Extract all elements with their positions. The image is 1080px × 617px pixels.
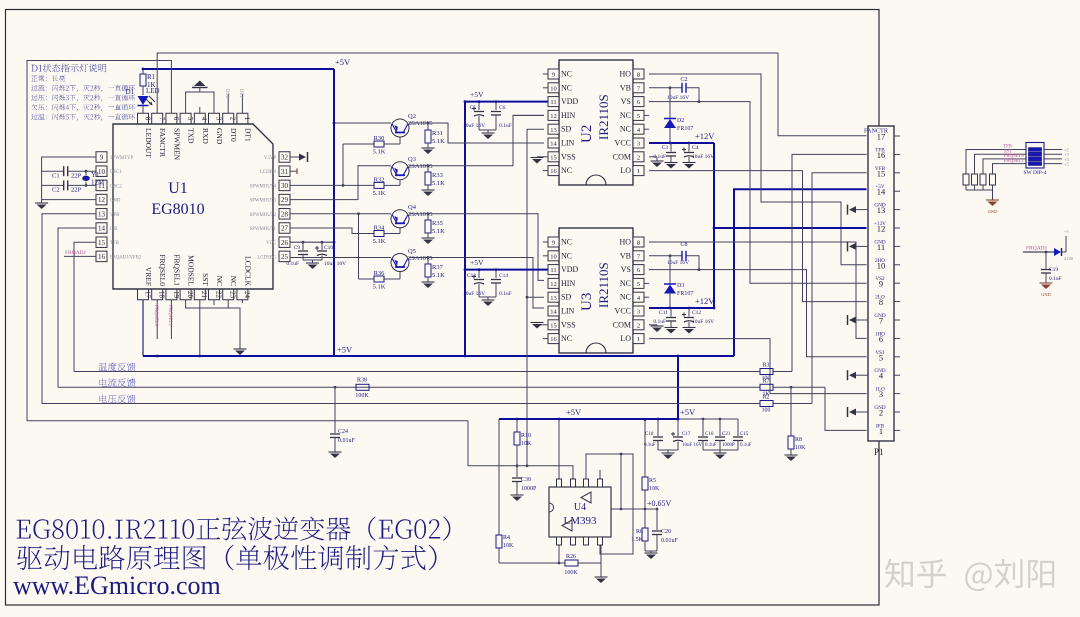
svg-text:NC: NC: [561, 251, 572, 260]
svg-text:22P: 22P: [71, 173, 82, 180]
svg-text:C21: C21: [722, 432, 731, 437]
resistor pulldown 3: [982, 172, 984, 174]
svg-text:C30: C30: [521, 477, 531, 483]
svg-text:SPWMOUT2: SPWMOUT2: [250, 213, 277, 218]
wire R26 line: [499, 562, 565, 564]
wire U4 pin1 to +5V: [558, 419, 560, 479]
wire Q4 base: [399, 228, 401, 234]
svg-text:10K: 10K: [503, 543, 514, 549]
svg-text:R6: R6: [636, 529, 643, 535]
svg-text:C10: C10: [324, 245, 333, 251]
svg-text:13: 13: [98, 210, 106, 218]
U1 right pin 31 LCDEN: [279, 166, 290, 177]
resistor R33: [427, 166, 429, 172]
wire VCC3 +12V: [649, 307, 714, 309]
U1 left pin 10 OSC1: [96, 166, 107, 177]
U4 bottom pin: [571, 537, 576, 545]
svg-text:1LO: 1LO: [875, 387, 885, 393]
ground R37: [422, 281, 435, 283]
diode D3 FR107: [669, 256, 671, 284]
note title: [32, 64, 107, 72]
capacitor C17: [677, 419, 679, 436]
svg-text:C12: C12: [692, 310, 701, 316]
svg-text:0.1uF: 0.1uF: [499, 291, 512, 297]
wire DIP gnd bus: [966, 189, 993, 191]
capacitor C16: [702, 419, 704, 436]
ground R8: [785, 454, 798, 456]
svg-text:SPWMTYP: SPWMTYP: [110, 156, 134, 161]
capacitor C10: [321, 242, 323, 250]
U1 top pin 6 SPWMEN: [166, 113, 177, 124]
svg-text:12: 12: [550, 113, 557, 120]
resistor R36: [374, 276, 384, 282]
wire IFB to P1 pin1: [825, 387, 867, 430]
U1 left pin 15 TFB: [96, 237, 107, 248]
svg-text:FR107: FR107: [677, 291, 693, 297]
wire VB2: [649, 87, 682, 89]
svg-text:29: 29: [281, 196, 289, 204]
U3 left pin 15 VSS: [548, 320, 559, 330]
+12V wire to P1 pin12: [714, 227, 867, 229]
wire VS3 to P1 pin5: [649, 270, 867, 357]
U1 right pin 28 SPWMOUT2: [279, 209, 290, 220]
svg-text:VB: VB: [620, 83, 631, 92]
IC U1 EG8010 body: [113, 124, 273, 289]
U4 bottom pin: [557, 537, 562, 545]
U3 right pin 1 LO: [633, 334, 644, 344]
U1 top pin 2 DT0: [223, 113, 234, 124]
svg-text:FRQSEL0: FRQSEL0: [153, 305, 158, 327]
diode D4: [1054, 248, 1061, 256]
U1 top pin 8 LEDOUT: [138, 113, 149, 124]
svg-text:+12V: +12V: [695, 131, 715, 141]
svg-text:FANCTR: FANCTR: [158, 128, 167, 157]
wire VFB pin13: [42, 214, 96, 404]
label dianya fankui: [99, 395, 135, 404]
svg-text:3: 3: [637, 309, 640, 316]
wire Q5 collector to LIN3: [409, 258, 544, 309]
svg-text:21: 21: [200, 291, 208, 299]
svg-text:GND: GND: [988, 209, 998, 214]
wire IFB pin14: [58, 228, 96, 387]
svg-text:+12V: +12V: [695, 296, 715, 306]
capacitor C12: [688, 308, 690, 317]
wire SD3: [527, 296, 544, 298]
transistor Q3 2SA1015: [391, 162, 409, 180]
note line 1: [31, 75, 65, 81]
P1 gnd arrow pin 4: [855, 374, 868, 376]
svg-text:R10: R10: [521, 433, 531, 439]
svg-text:R33: R33: [432, 172, 443, 179]
wire SPWMEN net: [27, 61, 171, 421]
svg-text:IR2110S: IR2110S: [596, 94, 611, 140]
svg-text:10K: 10K: [795, 445, 806, 451]
svg-text:C14: C14: [499, 273, 508, 279]
resistor R8: [790, 387, 792, 436]
U4 top pin: [598, 479, 603, 487]
DIP element 4: [1029, 162, 1042, 166]
svg-text:FRQSEL1: FRQSEL1: [172, 254, 181, 286]
net label FRQADJ pin16: [64, 255, 96, 257]
svg-text:9: 9: [100, 154, 104, 162]
svg-text:16: 16: [550, 336, 557, 343]
svg-text:R3: R3: [763, 363, 770, 369]
DIP element 1: [1029, 148, 1042, 152]
resistor R32: [374, 182, 384, 188]
svg-text:FR107: FR107: [677, 126, 693, 132]
svg-text:2HO: 2HO: [875, 258, 885, 264]
svg-text:R32: R32: [374, 177, 385, 184]
svg-text:SW DIP-4: SW DIP-4: [1024, 170, 1047, 176]
U3 right pin 4 NC: [644, 296, 649, 298]
svg-text:1.5K: 1.5K: [631, 537, 644, 543]
ground U4: [595, 576, 608, 578]
wire DIP right 4: [1044, 163, 1062, 165]
svg-text:5.1K: 5.1K: [432, 228, 445, 235]
svg-text:R8: R8: [795, 437, 802, 443]
svg-text:14: 14: [98, 225, 106, 233]
svg-text:SPWMEN: SPWMEN: [172, 128, 181, 161]
wire SST to +5V bus: [199, 300, 201, 356]
P1 gnd arrow pin 11: [855, 245, 868, 247]
svg-text:C18: C18: [645, 432, 654, 437]
svg-text:HIN: HIN: [561, 279, 575, 288]
U2 left pin 15 VSS: [548, 152, 559, 162]
svg-text:1: 1: [243, 117, 251, 121]
resistor R10: [516, 419, 518, 432]
svg-text:VFB: VFB: [110, 213, 119, 218]
svg-text:LIN: LIN: [561, 307, 575, 316]
svg-text:23: 23: [229, 291, 237, 299]
svg-text:+5V: +5V: [337, 345, 353, 355]
svg-text:NC: NC: [229, 276, 238, 286]
svg-text:R34: R34: [374, 225, 386, 232]
svg-text:IFB: IFB: [110, 227, 117, 232]
capacitor C2 bootstrap: [681, 83, 683, 93]
watermark: [885, 559, 1054, 591]
transistor Q2 2SA1015: [391, 119, 409, 137]
svg-text:R26: R26: [566, 554, 576, 560]
svg-text:17: 17: [143, 291, 151, 299]
svg-text:0.1uF: 0.1uF: [653, 319, 666, 325]
wire Q5 line left: [290, 257, 391, 259]
U1 right pin 26 VCC: [279, 237, 290, 248]
svg-text:10K: 10K: [521, 441, 532, 447]
svg-text:U4: U4: [574, 502, 586, 513]
svg-text:VSS: VSS: [561, 152, 576, 161]
svg-text:VREF: VREF: [144, 267, 153, 286]
svg-text:FRQADJ: FRQADJ: [65, 250, 87, 256]
U1 left pin 16 FRQADJ/VFB2: [96, 251, 107, 262]
wire R36 line: [359, 278, 375, 280]
wire GND pin12: [42, 199, 96, 201]
svg-text:FRQSEL1: FRQSEL1: [1004, 159, 1025, 164]
svg-text:C9: C9: [294, 245, 301, 251]
wire Q2 emitter from +5V: [334, 122, 391, 124]
U1 bottom pin 17 VREF: [138, 289, 149, 300]
U1 left pin 14 IFB: [96, 223, 107, 234]
svg-text:10uF 16V: 10uF 16V: [692, 154, 714, 160]
svg-text:2LO: 2LO: [875, 295, 885, 301]
U1 bottom pin 21 SST: [194, 289, 205, 300]
LED D1: [138, 96, 149, 105]
NC stub 22: [213, 300, 215, 305]
svg-text:VCC: VCC: [266, 241, 276, 246]
svg-text:COM: COM: [613, 152, 631, 161]
U1 bottom pin 20 MODSEL: [180, 289, 191, 300]
label dianliu fankui: [99, 378, 135, 387]
svg-text:FRQSEL1: FRQSEL1: [167, 305, 172, 327]
svg-text:GND: GND: [874, 368, 885, 374]
transistor Q5 2SA1015: [391, 254, 409, 272]
svg-text:+5V: +5V: [566, 407, 582, 417]
svg-text:R30: R30: [374, 135, 385, 142]
U3 left pin 9 NC: [543, 241, 548, 243]
U2 right pin 3 VCC: [633, 138, 644, 148]
wire U4 gnd: [600, 545, 602, 563]
svg-text:1: 1: [637, 168, 640, 175]
U1 bottom pin 19 FRQSEL1: [166, 289, 177, 300]
svg-text:10K: 10K: [649, 486, 660, 492]
capacitor C2: [63, 180, 65, 190]
svg-text:LO: LO: [620, 334, 631, 343]
svg-text:TFB: TFB: [110, 241, 119, 246]
svg-text:1HO: 1HO: [875, 331, 885, 337]
resistor R26: [565, 560, 578, 566]
svg-text:2: 2: [637, 154, 640, 161]
svg-text:SD: SD: [561, 293, 571, 302]
svg-text:+5: +5: [1064, 162, 1070, 167]
wire TFB line: [74, 371, 760, 373]
FRQSEL1 stub: [170, 300, 172, 339]
capacitor C8 bootstrap: [681, 251, 683, 261]
ground MODSEL: [234, 348, 247, 350]
svg-text:U2: U2: [579, 125, 595, 143]
title line 1: [17, 517, 451, 541]
U3 right pin 8 HO: [633, 237, 644, 247]
U2 right pin 8 HO: [633, 69, 644, 79]
svg-text:+5V: +5V: [680, 407, 696, 417]
ground C19 red: [1040, 282, 1053, 284]
svg-text:11: 11: [550, 99, 556, 106]
svg-text:GND: GND: [874, 313, 885, 319]
U2 left pin 14 LIN: [548, 138, 559, 148]
svg-text:30: 30: [281, 182, 289, 190]
DIP element 3: [1029, 157, 1042, 161]
U4 bottom pin: [598, 537, 603, 545]
FRQSEL0 stub: [156, 300, 158, 339]
wire VB3: [649, 255, 682, 257]
U4 bottom pin: [584, 537, 589, 545]
U3 left pin 13 SD: [548, 292, 559, 302]
capacitor C14: [495, 270, 497, 278]
svg-text:DT0: DT0: [229, 128, 238, 142]
svg-text:D3: D3: [677, 283, 684, 289]
svg-text:10uF 16V: 10uF 16V: [692, 319, 714, 325]
svg-text:10uF 16V: 10uF 16V: [682, 443, 703, 448]
svg-text:100K: 100K: [564, 570, 578, 576]
svg-text:IFB: IFB: [876, 423, 885, 429]
svg-text:10: 10: [550, 253, 557, 260]
svg-text:14: 14: [550, 309, 557, 316]
svg-text:DT0: DT0: [224, 89, 229, 99]
capacitor C6: [495, 102, 497, 110]
svg-text:VB: VB: [620, 251, 631, 260]
wire DIP net 4: [993, 164, 1027, 172]
svg-text:C1: C1: [52, 173, 60, 180]
svg-text:NC: NC: [561, 238, 572, 247]
U1 left pin 9 SPWMTYP: [96, 152, 107, 163]
svg-text:20: 20: [186, 291, 194, 299]
wire OSC2: [69, 184, 97, 186]
svg-text:100K: 100K: [355, 393, 369, 399]
wire FANCTR net: [157, 53, 866, 136]
capacitor C18: [657, 419, 659, 436]
svg-text:LCDCLK: LCDCLK: [243, 256, 252, 287]
wire DIP net 1: [966, 150, 1026, 173]
svg-text:SD: SD: [561, 125, 571, 134]
ground C5 C6: [479, 129, 496, 131]
svg-text:Q3: Q3: [408, 156, 416, 163]
svg-text:TFB: TFB: [875, 147, 885, 153]
svg-text:C8: C8: [680, 242, 687, 248]
svg-text:24: 24: [243, 291, 251, 299]
svg-text:13: 13: [550, 295, 557, 302]
U2 left pin 13 SD: [548, 124, 559, 134]
wire LO2 to P1 pin8: [649, 171, 867, 302]
svg-text:P1: P1: [874, 447, 884, 457]
schematic sheet border: [6, 10, 880, 606]
svg-text:C15: C15: [740, 432, 749, 437]
wire Q4 collector to HIN3: [409, 214, 544, 281]
wire COM3: [649, 324, 657, 326]
svg-text:TXD: TXD: [187, 128, 196, 144]
wire HO3 to P1 pin6: [649, 242, 867, 338]
+5V wire top-left: [143, 68, 334, 70]
wire FRQADJ: [1023, 251, 1054, 253]
ground C13 C14: [479, 296, 496, 298]
wire HIN2: [513, 114, 544, 116]
svg-text:2: 2: [637, 322, 640, 329]
resistor pulldown 2: [974, 172, 976, 174]
capacitor C4: [688, 143, 690, 152]
svg-text:13: 13: [550, 127, 557, 134]
svg-text:22P: 22P: [71, 187, 82, 194]
svg-text:VS: VS: [621, 97, 631, 106]
connector P1 body: [868, 126, 894, 441]
U3 right pin 2 COM: [633, 320, 644, 330]
svg-text:RXD: RXD: [201, 128, 210, 144]
svg-text:GND: GND: [874, 239, 885, 245]
svg-text:10: 10: [550, 85, 557, 92]
wire VFB line: [42, 403, 760, 405]
svg-text:R1: R1: [147, 73, 156, 81]
svg-text:EG8010: EG8010: [151, 201, 204, 218]
svg-text:25: 25: [281, 253, 289, 261]
U3 right pin 5 NC: [644, 282, 649, 284]
svg-text:GND: GND: [874, 203, 885, 209]
DT0 stub: [227, 94, 229, 113]
label wendu fankui: [98, 362, 135, 371]
svg-text:V5VP: V5VP: [264, 156, 276, 161]
svg-text:100: 100: [762, 408, 771, 414]
svg-text:+5V: +5V: [875, 184, 885, 190]
wire R6 C20 join: [645, 508, 657, 510]
svg-text:16: 16: [98, 253, 106, 261]
svg-text:R38: R38: [357, 378, 367, 384]
svg-text:HO: HO: [619, 70, 631, 79]
note line 2: [31, 85, 135, 92]
U1 top pin 1 DT1: [237, 113, 248, 124]
U3 right pin 7 VB: [633, 251, 644, 261]
LCDCLK stub: [241, 300, 243, 303]
svg-text:C3: C3: [662, 145, 669, 151]
wire Q2 base: [399, 137, 401, 144]
wire DIP net 3: [983, 159, 1026, 172]
GND flag above U1: [186, 92, 214, 113]
wire HO2 to P1 pin10: [649, 74, 867, 265]
svg-text:NC: NC: [561, 83, 572, 92]
ground R6 C20: [650, 551, 652, 553]
ground R35: [422, 237, 435, 239]
+5V lower bus right: [678, 418, 738, 420]
svg-text:FANCTR: FANCTR: [864, 128, 889, 135]
svg-text:NC: NC: [561, 334, 572, 343]
svg-text:C11: C11: [659, 310, 668, 316]
svg-text:5: 5: [637, 113, 640, 120]
svg-text:32: 32: [281, 154, 289, 162]
svg-text:SPWMOUT4: SPWMOUT4: [250, 184, 277, 189]
svg-text:OSC1: OSC1: [110, 170, 122, 175]
svg-text:R37: R37: [432, 264, 444, 271]
wire Q2 collector: [409, 123, 544, 143]
resistor pulldown 1: [965, 172, 967, 174]
svg-text:1000P: 1000P: [521, 486, 537, 492]
resistor R34: [374, 231, 384, 237]
U3 left pin 16 NC: [543, 338, 548, 340]
svg-text:31: 31: [281, 168, 289, 176]
wire Q4 line left: [290, 213, 391, 215]
resistor R7: [760, 384, 773, 390]
RXD stub: [199, 107, 201, 113]
P1 gnd arrow pin 7: [855, 319, 868, 321]
svg-text:19: 19: [172, 291, 180, 299]
wire R34 line: [290, 228, 374, 234]
wire OSC1: [69, 170, 97, 172]
wire R30 line: [343, 143, 374, 145]
svg-text:0.1uF: 0.1uF: [286, 261, 299, 267]
P1 gnd arrow pin 2: [855, 411, 868, 413]
svg-text:3: 3: [637, 141, 640, 148]
capacitor C3: [670, 143, 672, 152]
svg-text:22: 22: [214, 291, 222, 299]
resistor pulldown 4: [992, 172, 994, 174]
svg-text:GND: GND: [1041, 292, 1051, 297]
svg-text:6: 6: [172, 117, 180, 121]
resistor R3: [760, 369, 773, 375]
svg-text:VDD: VDD: [561, 97, 579, 106]
wire COM2: [649, 156, 657, 158]
svg-text:NC: NC: [620, 125, 631, 134]
wire C2 to VS: [686, 88, 699, 102]
svg-text:COM: COM: [613, 320, 631, 329]
svg-text:NC: NC: [561, 70, 572, 79]
svg-text:VS1: VS1: [875, 350, 885, 356]
transistor Q4 2SA1015: [391, 210, 409, 228]
svg-text:LIN: LIN: [561, 139, 575, 148]
svg-text:16: 16: [550, 168, 557, 175]
wire VCC U1: [290, 241, 334, 243]
